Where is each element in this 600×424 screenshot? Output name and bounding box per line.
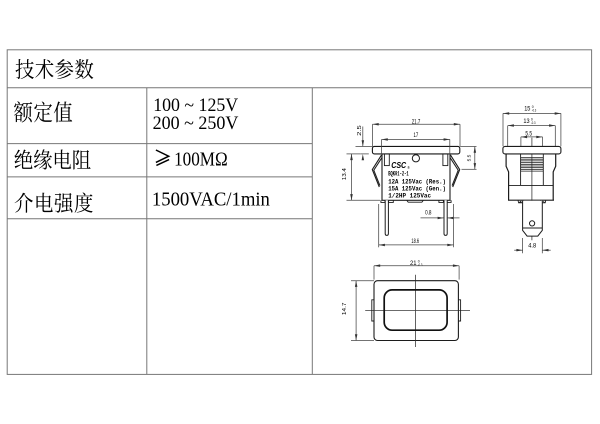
cutout view: right key notch <box>458 300 460 321</box>
front view: dimension 21.7 <box>373 118 461 146</box>
front view: left latch wing <box>372 155 381 187</box>
table outer frame <box>7 50 591 375</box>
side view: terminal blade <box>523 201 543 236</box>
svg-text:13: 13 <box>523 118 530 125</box>
front view: right latch wing <box>451 155 460 187</box>
svg-text:-0.3: -0.3 <box>532 109 537 113</box>
svg-text:12A 125Vac (Res.): 12A 125Vac (Res.) <box>388 179 446 186</box>
cutout view: outer rounded rectangle <box>374 281 458 341</box>
row label 额定值 <box>14 101 72 122</box>
front view: bottom center recess <box>407 200 424 202</box>
side view: center axis line <box>531 138 533 241</box>
front view: body rectangle <box>382 154 450 200</box>
front view: left mounting slot <box>384 154 389 166</box>
table row divider y=177 <box>7 176 312 178</box>
table row divider y=219 <box>7 218 312 220</box>
svg-text:-0.3: -0.3 <box>418 263 423 267</box>
front view: bottom notch left <box>381 200 393 202</box>
front view: dimension 13.4 <box>342 154 380 200</box>
side view: right foot clip <box>540 200 545 203</box>
side view: upper body with chamfer steps <box>506 154 556 200</box>
front view: right terminal pin <box>444 200 447 235</box>
side view: dimension 15 0/-0.3 <box>503 105 561 146</box>
svg-text:17: 17 <box>414 132 419 139</box>
row label 介电强度 <box>15 192 93 212</box>
svg-text:13.4: 13.4 <box>342 168 348 180</box>
svg-text:15: 15 <box>524 106 531 113</box>
front view: left terminal pin <box>385 200 388 235</box>
side view: dimension 13 0/-0.3 <box>508 117 556 146</box>
side view: blade hole <box>530 221 535 226</box>
side view: dimension 4.8 <box>514 238 551 253</box>
svg-text:1/2HP 125Vac: 1/2HP 125Vac <box>388 192 431 199</box>
table column divider x=147 <box>146 88 148 375</box>
header label 技术参数 <box>16 59 94 79</box>
front view: dimension 5.5 (right) <box>460 147 476 170</box>
front view: dimension 17 <box>382 132 450 155</box>
svg-text:5.5: 5.5 <box>467 154 472 161</box>
svg-text:2.5: 2.5 <box>357 125 363 136</box>
cutout view: horizontal centerline <box>365 310 470 312</box>
svg-text:BQK01-2-1: BQK01-2-1 <box>388 170 409 177</box>
svg-text:CSC: CSC <box>391 161 406 170</box>
cutout view: dimension 21 +0/-0.3 <box>374 259 459 279</box>
cutout view: centerline continuation over fill <box>374 281 458 341</box>
svg-text:200 ~ 250V: 200 ~ 250V <box>153 114 239 134</box>
front view: bottom notch right <box>439 200 451 202</box>
side view: dimension 5.5 <box>521 131 543 153</box>
svg-text:-0.3: -0.3 <box>531 121 536 125</box>
front view: right mounting slot <box>443 154 448 166</box>
cutout view: left key notch <box>372 300 374 321</box>
side view: rocker seat inner rect <box>509 154 554 185</box>
table header divider <box>7 87 592 89</box>
svg-text:4.8: 4.8 <box>528 243 537 250</box>
svg-text:100MΩ: 100MΩ <box>174 150 228 171</box>
row label 绝缘电阻 <box>15 149 91 169</box>
front view: flange (top cap) <box>372 146 459 154</box>
side view: grip ribs <box>521 158 544 172</box>
table row divider y=143 <box>7 143 312 145</box>
front view: indicator circle <box>412 155 419 162</box>
cutout view: vertical centerline <box>414 275 416 347</box>
front view: dimension 18.6 <box>379 204 454 247</box>
front view: dimension 2.5 <box>357 125 369 160</box>
front view: dimension 0.8 <box>421 210 460 220</box>
svg-text:0.8: 0.8 <box>425 210 432 217</box>
svg-text:1500VAC/1min: 1500VAC/1min <box>152 188 270 210</box>
front view: CSC logo <box>391 161 410 170</box>
side view: body bottom edge <box>508 199 554 201</box>
cutout view: inner rounded rectangle <box>384 290 447 330</box>
side view: flange <box>503 146 561 154</box>
side view: left foot clip <box>518 200 523 203</box>
front view: flange top extension (for 2.5 dim) <box>356 146 373 148</box>
cutout view: dimension 14.7 <box>342 281 374 341</box>
svg-text:18.6: 18.6 <box>411 238 419 245</box>
table left-block right edge x=312 <box>311 88 313 375</box>
value >=100M ohm: geq symbol <box>156 150 169 165</box>
svg-text:14.7: 14.7 <box>342 303 348 316</box>
